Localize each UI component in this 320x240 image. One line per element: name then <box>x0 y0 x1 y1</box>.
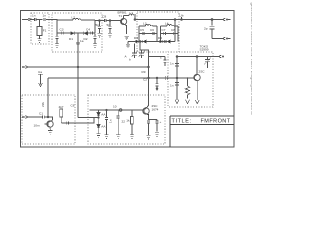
RF tank tuning feed vertical <box>77 34 79 118</box>
ground Q1 emitter <box>124 36 128 40</box>
title block <box>170 116 234 147</box>
svg-text:5p: 5p <box>96 23 100 27</box>
right column capacitor C6 <box>94 34 97 44</box>
capacitor C3 <box>62 31 64 34</box>
capacitor C10 <box>142 32 144 35</box>
transistor Q4 oscillator <box>194 57 200 104</box>
inductor L1 collector choke <box>124 14 136 19</box>
svg-text:10m: 10m <box>34 124 40 128</box>
varactor diode D2 <box>84 31 88 35</box>
schematic frame border <box>21 11 235 148</box>
right connector pin 2 <box>222 37 230 40</box>
capacitor C2 <box>44 18 55 21</box>
svg-text:D2: D2 <box>84 37 88 41</box>
capacitor C21 <box>117 110 120 135</box>
dashed box: input filter section <box>31 13 49 44</box>
trimmer capacitor CT3 <box>204 57 211 68</box>
capacitor C7 to ground <box>98 21 101 34</box>
capacitor C14 bypass <box>210 20 215 39</box>
capacitor C15 <box>175 64 179 67</box>
svg-text:2SC: 2SC <box>199 70 206 74</box>
IF main wire <box>90 109 143 111</box>
D-box bypass vertical <box>176 57 178 101</box>
capacitor C9 to ground <box>109 21 112 34</box>
ground C23 <box>155 133 159 137</box>
capacitor C13 <box>173 32 175 35</box>
tuning voltage wire <box>29 66 149 68</box>
test point circle <box>119 109 122 112</box>
varactor diode D5 <box>160 40 163 43</box>
wire filter to RF tank <box>55 19 57 22</box>
node main rail <box>134 19 136 21</box>
tank middle row wire <box>57 32 95 34</box>
wire osc out <box>149 56 166 58</box>
diode D8 <box>97 124 100 133</box>
right edge rotated caption <box>250 3 255 115</box>
svg-text:D3: D3 <box>134 36 138 40</box>
node AGC D-box <box>176 77 178 79</box>
ground left column <box>55 44 59 48</box>
oscillator tank loop L4 <box>161 25 179 34</box>
left column capacitor C5 <box>56 33 59 44</box>
rail tick node <box>181 17 183 20</box>
dashed box: oscillator tank section <box>137 12 179 52</box>
node varactor pair 1 <box>139 41 141 43</box>
svg-text:TITLE:: TITLE: <box>172 119 192 125</box>
svg-text:22: 22 <box>122 120 126 124</box>
svg-text:C3: C3 <box>60 28 64 32</box>
ground diode column <box>96 134 100 138</box>
capacitor C8 series <box>100 19 111 22</box>
ground Q2 emitter <box>146 135 150 139</box>
svg-text:Ua: Ua <box>38 70 42 74</box>
node varactor pair 2 <box>164 41 166 43</box>
dashed section boxes <box>22 12 213 144</box>
svg-text:b: b <box>129 58 131 62</box>
svg-text:C5: C5 <box>140 28 144 32</box>
dashed box: RF tuned circuit section <box>52 13 102 52</box>
component value labels <box>32 11 209 129</box>
transistor Q1 RF amp <box>121 16 127 34</box>
wire input to filter <box>31 19 34 21</box>
svg-text:gezeichnet m. EAGLE UKW Tuner: gezeichnet m. EAGLE UKW Tuner Eingangste… <box>250 3 252 115</box>
capacitor C23 emitter bypass <box>156 120 159 132</box>
varactor row wire <box>128 41 175 43</box>
svg-text:D1: D1 <box>69 37 73 41</box>
ground C20 <box>104 135 108 139</box>
svg-text:C4: C4 <box>86 28 90 32</box>
svg-text:L4: L4 <box>165 22 169 26</box>
node IF 1 <box>106 109 107 110</box>
ground C21 <box>116 135 120 139</box>
wire to connector pin 2 <box>212 38 222 40</box>
emitter network wire <box>149 117 158 120</box>
dashed box: oscillator transistor section <box>168 52 213 107</box>
capacitor C12 <box>164 32 166 35</box>
oscillator tank loop L3 <box>139 25 157 34</box>
diode column vertical <box>98 110 100 113</box>
node D-box top 2 <box>196 56 198 58</box>
svg-text:C1: C1 <box>39 111 43 115</box>
right connector pin 3 <box>218 55 224 58</box>
svg-text:22k: 22k <box>41 102 45 107</box>
node tuning at RF tank <box>77 66 79 68</box>
wire varactor row up to rail <box>174 20 176 42</box>
svg-text:L1: L1 <box>130 11 134 15</box>
capacitor C4 <box>91 31 93 34</box>
varactor diode D1 <box>71 31 75 35</box>
dashed box: audio preamp bottom left <box>22 95 75 144</box>
node Q3 base <box>47 116 49 118</box>
node AGC osc <box>148 77 150 79</box>
trimmer capacitor CT1 <box>131 44 138 59</box>
capacitor C16 <box>175 83 179 86</box>
svg-text:1k: 1k <box>126 119 130 123</box>
ground R7 <box>130 135 134 139</box>
AGC drop to audio section <box>47 78 49 117</box>
wire to connector pin 3 <box>213 56 220 58</box>
svg-text:Ub: Ub <box>180 14 184 18</box>
svg-text:R9: R9 <box>142 70 146 74</box>
IF bypass branch <box>155 77 158 90</box>
svg-text:1n: 1n <box>170 61 174 65</box>
transistor Q3 <box>45 117 54 130</box>
varactor diode D3 <box>136 40 139 43</box>
node rail to bypass <box>211 19 213 21</box>
capacitor C19 series <box>67 121 69 124</box>
trimmer capacitor CT2 <box>138 50 145 58</box>
antenna input connector J1 <box>22 18 31 21</box>
varactor diode D4 <box>143 40 146 43</box>
tuning arrow symbol <box>38 74 43 86</box>
svg-text:C8: C8 <box>102 14 106 18</box>
ground Q3 emitter <box>48 131 52 135</box>
svg-text:1a: 1a <box>80 39 84 43</box>
ground below tank center <box>76 43 80 47</box>
wire tank to RF amp <box>95 19 103 22</box>
svg-text:5p: 5p <box>107 23 111 27</box>
D-box top wire <box>177 56 213 58</box>
node at C9 <box>109 20 111 22</box>
ground below C7 <box>97 33 101 37</box>
svg-text:S2999: S2999 <box>200 48 209 52</box>
coupling capacitor C17 <box>163 57 166 67</box>
ground below C9 <box>108 33 112 37</box>
svg-text:L2: L2 <box>72 16 76 20</box>
IF detector wire <box>78 117 99 119</box>
tank L3 middle row <box>139 33 157 35</box>
svg-text:T1: T1 <box>119 14 123 18</box>
right connector pin 1 <box>222 18 230 21</box>
capacitor C23a emitter <box>147 121 150 135</box>
svg-text:1n: 1n <box>109 119 113 123</box>
tank drop wires <box>139 34 178 42</box>
svg-text:FMFRONT: FMFRONT <box>201 119 231 125</box>
svg-text:1n: 1n <box>32 14 36 18</box>
dashed box: IF section bottom middle <box>88 95 165 144</box>
svg-text:C8: C8 <box>171 28 175 32</box>
svg-text:F1: F1 <box>43 29 47 33</box>
capacitor C18 series <box>43 115 54 118</box>
svg-text:10: 10 <box>113 104 117 108</box>
capacitor C24 series on AGC wire <box>165 76 167 80</box>
ground D-box 1 <box>175 100 179 104</box>
resistor R7 <box>131 110 134 135</box>
ground D-box 2 <box>185 77 189 103</box>
resistor R5 <box>60 109 63 123</box>
ground left of varactor row <box>126 42 130 48</box>
node tuning at osc tank <box>148 66 150 68</box>
wire to C18 <box>29 116 43 118</box>
title text <box>172 119 231 125</box>
tuning voltage connector left <box>22 66 28 69</box>
inductor L2 tank loop <box>57 18 95 33</box>
svg-text:D4: D4 <box>158 36 162 40</box>
svg-text:C6: C6 <box>150 28 154 32</box>
svg-text:+: + <box>160 120 162 124</box>
crystal X1 <box>37 20 42 39</box>
tank L4 middle row <box>161 33 179 35</box>
diode D7 <box>97 112 100 124</box>
capacitor C11 <box>152 32 154 35</box>
svg-text:C2: C2 <box>143 78 147 82</box>
main supply rail wire <box>135 19 222 21</box>
svg-text:C6: C6 <box>71 104 75 108</box>
AGC wire horizontal <box>48 77 195 79</box>
svg-text:1n: 1n <box>43 14 47 18</box>
svg-text:1n: 1n <box>170 83 174 87</box>
node IF det <box>98 117 99 118</box>
oscillator tuning line vertical <box>140 42 149 109</box>
svg-text:1674: 1674 <box>152 108 159 112</box>
svg-text:L3: L3 <box>143 22 147 26</box>
svg-text:2p: 2p <box>204 26 208 30</box>
varactor diode D6 <box>167 40 170 43</box>
wire audio out <box>62 118 94 124</box>
capacitor C20 <box>105 110 108 135</box>
svg-text:4k7: 4k7 <box>59 105 64 109</box>
audio connector left <box>22 116 28 119</box>
svg-text:C7: C7 <box>162 28 166 32</box>
node rail osc feed <box>174 19 176 21</box>
capacitor C1 <box>34 18 42 21</box>
node at C7 <box>99 20 101 22</box>
wire to Q1 base <box>110 20 120 22</box>
transistor Q2 IF amp <box>143 107 149 117</box>
node D-box top <box>176 56 178 58</box>
ground below crystal <box>37 39 41 43</box>
ground right column <box>93 44 97 48</box>
